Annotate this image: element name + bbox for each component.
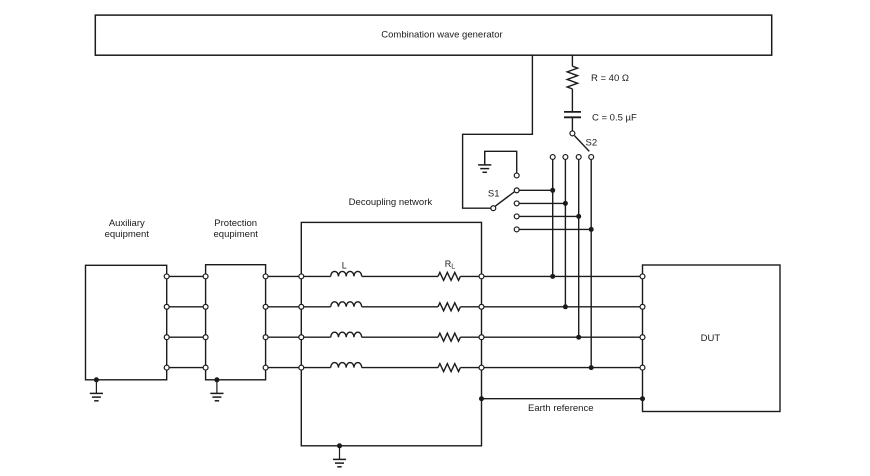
wire line 4 decoupling to DUT [482,367,643,369]
terminals protection right edge [263,274,268,370]
terminals decoupling left edge [299,274,304,370]
svg-text:R = 40 Ω: R = 40 Ω [591,73,629,84]
wire line 3 aux to protection [167,336,206,338]
svg-text:C = 0.5 µF: C = 0.5 µF [592,112,637,123]
terminals surge line tops [550,155,593,160]
combination wave generator box [95,15,771,55]
resistor RL line 3 [438,333,460,341]
selector contact 2 wire [514,201,565,206]
protection equipment box [206,218,266,380]
wire R to C [571,89,573,111]
wire line 2 decoupling to DUT [482,306,643,308]
inductor L line 2 [331,302,362,307]
terminals protection left edge [203,274,208,370]
svg-text:Earth reference: Earth reference [528,403,593,414]
switch S2 [570,131,597,151]
resistor R = 40 Ω [567,66,629,89]
svg-text:S2: S2 [586,138,598,149]
auxiliary equipment box [86,218,167,380]
wire surge line 1 [550,160,555,279]
wire line 2 protection to decoupling [266,306,302,308]
svg-text:equpiment: equpiment [214,229,259,240]
wire line 2 aux to protection [167,306,206,308]
svg-text:Decoupling network: Decoupling network [349,197,433,208]
switch S1 [488,189,515,211]
svg-text:Combination wave generator: Combination wave generator [381,30,502,41]
wire line 4 inside decoupling network [301,367,481,369]
inductor L line 4 [331,363,362,368]
wire S1 ground branch [485,151,519,178]
wire line 4 protection to decoupling [266,367,302,369]
wire line 1 decoupling to DUT [482,275,643,277]
wire line 1 protection to decoupling [266,275,302,277]
wire line 3 decoupling to DUT [482,336,643,338]
ground symbol decoupling [333,446,346,467]
svg-text:Protection: Protection [214,218,257,229]
selector contact 1 wire [514,188,552,193]
capacitor C = 0.5 µF [564,112,637,123]
svg-text:Auxiliary: Auxiliary [109,218,145,229]
wire surge line 2 [563,160,568,310]
terminals auxiliary right edge [164,274,169,370]
svg-text:DUT: DUT [701,333,721,344]
wire generator return to S1 common [463,55,533,208]
wire line 2 inside decoupling network [301,306,481,308]
ground at protection equipment [214,377,219,382]
wire C to S2 [571,117,573,130]
ground symbol protection [210,380,223,401]
wire generator output to R [571,55,573,66]
wire surge line 4 [589,160,594,371]
resistor RL line 4 [438,364,460,372]
ground at decoupling network [337,443,342,448]
DUT box [643,265,781,412]
svg-text:equipment: equipment [105,229,150,240]
inductor L line 3 [331,332,362,337]
ground at S1 [478,151,491,172]
earth reference wire [479,396,645,414]
resistor RL line 2 [438,303,460,311]
svg-text:L: L [342,260,347,270]
selector contact 4 wire [514,227,591,232]
wire line 3 inside decoupling network [301,336,481,338]
wire surge line 3 [576,160,581,340]
wire line 1 inside decoupling network [301,275,481,277]
terminals decoupling right edge [479,274,484,370]
decoupling network box [301,197,481,446]
terminals DUT left edge [640,274,645,370]
svg-text:S1: S1 [488,189,500,200]
wire line 4 aux to protection [167,367,206,369]
ground symbol auxiliary [90,380,103,401]
selector contact 3 wire [514,214,578,219]
resistor RL line 1 [438,272,460,280]
ground at auxiliary equipment [94,377,99,382]
inductor L line 1 [331,271,362,276]
wire line 1 aux to protection [167,275,206,277]
wire line 3 protection to decoupling [266,336,302,338]
